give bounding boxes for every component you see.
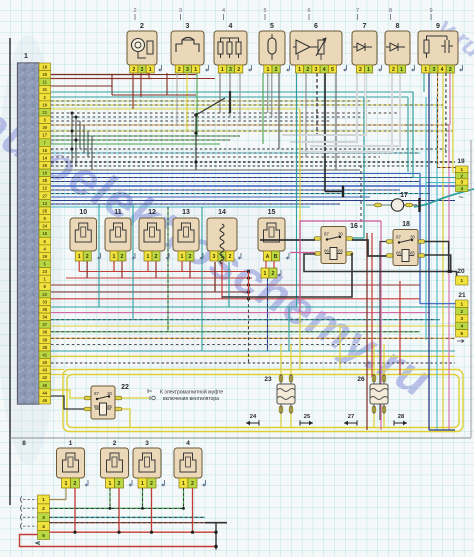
svg-text:1: 1	[460, 167, 463, 172]
svg-text:2: 2	[132, 67, 135, 73]
svg-text:2: 2	[392, 67, 395, 73]
svg-text:1: 1	[194, 67, 197, 73]
svg-text:25: 25	[42, 208, 47, 213]
svg-text:13: 13	[42, 201, 47, 206]
svg-text:9: 9	[436, 23, 440, 30]
svg-text:18: 18	[42, 64, 47, 69]
svg-text:3: 3	[460, 316, 463, 321]
svg-text:3: 3	[42, 515, 45, 520]
svg-text:19: 19	[457, 158, 465, 165]
svg-text:22: 22	[121, 384, 129, 391]
svg-text:1: 1	[147, 254, 150, 260]
svg-text:4: 4	[222, 8, 225, 14]
svg-text:37: 37	[42, 322, 47, 327]
svg-text:2: 2	[229, 254, 232, 260]
svg-text:28: 28	[398, 414, 405, 420]
svg-text:10: 10	[79, 209, 87, 216]
svg-text:46: 46	[42, 398, 47, 403]
svg-text:1: 1	[182, 481, 185, 487]
svg-text:85: 85	[107, 404, 112, 409]
svg-text:27: 27	[42, 193, 47, 198]
svg-text:1: 1	[400, 67, 403, 73]
svg-text:4: 4	[460, 324, 463, 329]
svg-text:1: 1	[221, 67, 224, 73]
svg-text:18: 18	[402, 221, 410, 228]
svg-text:33: 33	[42, 299, 47, 304]
svg-text:2: 2	[449, 67, 452, 73]
svg-text:9: 9	[429, 8, 432, 14]
svg-text:1: 1	[367, 67, 370, 73]
svg-text:87: 87	[324, 232, 329, 237]
svg-text:3: 3	[141, 67, 144, 73]
svg-text:1: 1	[42, 497, 45, 502]
svg-text:45: 45	[42, 383, 47, 388]
svg-text:21: 21	[458, 292, 466, 299]
svg-text:12: 12	[148, 209, 156, 216]
svg-text:44: 44	[42, 390, 47, 395]
svg-text:17: 17	[400, 192, 408, 199]
svg-text:38: 38	[42, 345, 47, 350]
svg-text:29: 29	[42, 254, 47, 259]
svg-text:8: 8	[396, 23, 400, 30]
svg-text:3: 3	[186, 67, 189, 73]
svg-text:30: 30	[42, 125, 47, 130]
svg-text:2: 2	[155, 254, 158, 260]
svg-text:11: 11	[42, 80, 47, 85]
svg-text:8: 8	[389, 8, 392, 14]
svg-text:15: 15	[42, 231, 47, 236]
svg-text:26: 26	[357, 376, 365, 383]
svg-text:включения вентилятора: включения вентилятора	[163, 396, 219, 402]
svg-text:8: 8	[22, 440, 26, 447]
svg-text:7: 7	[363, 23, 367, 30]
svg-text:35: 35	[42, 307, 47, 312]
svg-text:87: 87	[94, 391, 99, 396]
svg-text:22: 22	[42, 292, 47, 297]
svg-text:31: 31	[42, 87, 47, 92]
svg-text:26: 26	[42, 163, 47, 168]
svg-text:16: 16	[42, 148, 47, 153]
svg-text:7: 7	[356, 8, 359, 14]
svg-text:3: 3	[315, 67, 318, 73]
svg-text:3: 3	[460, 180, 463, 185]
svg-text:1: 1	[24, 53, 28, 60]
svg-text:1: 1	[181, 254, 184, 260]
svg-text:1: 1	[424, 67, 427, 73]
svg-text:1: 1	[69, 440, 73, 447]
svg-text:13: 13	[182, 209, 190, 216]
svg-text:2: 2	[113, 440, 117, 447]
svg-text:12: 12	[42, 186, 47, 191]
svg-text:2: 2	[191, 481, 194, 487]
svg-text:B: B	[274, 254, 278, 260]
svg-text:2: 2	[140, 23, 144, 30]
svg-text:43: 43	[42, 368, 47, 373]
svg-text:39: 39	[42, 337, 47, 342]
svg-text:15: 15	[268, 209, 276, 216]
svg-text:5: 5	[42, 533, 45, 538]
svg-text:1: 1	[113, 254, 116, 260]
svg-text:1: 1	[264, 271, 267, 277]
svg-text:1: 1	[141, 481, 144, 487]
svg-text:23: 23	[264, 376, 272, 383]
svg-text:1: 1	[109, 481, 112, 487]
svg-text:16: 16	[350, 223, 358, 230]
svg-text:2: 2	[306, 67, 309, 73]
svg-text:85: 85	[338, 249, 343, 254]
svg-text:2: 2	[133, 8, 136, 14]
svg-text:1: 1	[65, 481, 68, 487]
svg-text:14: 14	[218, 209, 226, 216]
svg-text:5: 5	[460, 331, 463, 336]
svg-text:2: 2	[74, 481, 77, 487]
svg-text:2: 2	[237, 67, 240, 73]
svg-text:85: 85	[410, 251, 415, 256]
svg-text:1: 1	[298, 67, 301, 73]
svg-text:34: 34	[42, 315, 47, 320]
svg-text:2: 2	[86, 254, 89, 260]
svg-text:5: 5	[270, 23, 274, 30]
svg-text:2: 2	[42, 506, 45, 511]
svg-text:40: 40	[42, 360, 47, 365]
svg-text:2: 2	[118, 481, 121, 487]
svg-text:24: 24	[42, 224, 47, 229]
svg-text:14: 14	[42, 155, 47, 160]
svg-text:2: 2	[460, 309, 463, 314]
svg-text:41: 41	[42, 352, 47, 357]
svg-text:1: 1	[460, 301, 463, 306]
svg-text:2: 2	[359, 67, 362, 73]
svg-text:4: 4	[186, 440, 190, 447]
svg-text:К электромагнитной муфте: К электромагнитной муфте	[160, 389, 223, 396]
svg-text:4: 4	[441, 67, 444, 73]
svg-text:2: 2	[189, 254, 192, 260]
svg-text:2: 2	[178, 67, 181, 73]
svg-text:2: 2	[121, 254, 124, 260]
svg-text:21: 21	[42, 110, 47, 115]
svg-text:6: 6	[307, 8, 310, 14]
svg-text:2: 2	[460, 173, 463, 178]
svg-text:23: 23	[42, 269, 47, 274]
svg-text:1: 1	[266, 67, 269, 73]
svg-text:6: 6	[314, 23, 318, 30]
svg-text:24: 24	[250, 414, 257, 420]
svg-text:3: 3	[213, 254, 216, 260]
svg-text:10: 10	[42, 171, 47, 176]
svg-text:5: 5	[263, 8, 266, 14]
svg-text:1: 1	[78, 254, 81, 260]
svg-text:5: 5	[331, 67, 334, 73]
svg-text:3: 3	[432, 67, 435, 73]
svg-text:19: 19	[42, 102, 47, 107]
svg-text:11: 11	[114, 209, 122, 216]
svg-text:2: 2	[150, 481, 153, 487]
svg-text:3: 3	[179, 8, 182, 14]
svg-text:17: 17	[42, 133, 47, 138]
svg-text:27: 27	[348, 414, 354, 420]
svg-text:3: 3	[229, 67, 232, 73]
svg-text:4: 4	[42, 524, 45, 529]
svg-text:A: A	[266, 254, 270, 260]
svg-text:20: 20	[42, 72, 47, 77]
svg-text:3: 3	[145, 440, 149, 447]
svg-text:20: 20	[457, 268, 465, 275]
svg-text:1: 1	[460, 278, 463, 283]
svg-text:30: 30	[107, 391, 112, 396]
svg-text:36: 36	[42, 330, 47, 335]
svg-text:~: ~	[458, 192, 463, 202]
svg-text:42: 42	[42, 375, 47, 380]
svg-text:2: 2	[275, 67, 278, 73]
svg-text:4: 4	[460, 186, 463, 191]
svg-text:86: 86	[324, 249, 329, 254]
svg-text:86: 86	[94, 404, 99, 409]
svg-text:30: 30	[410, 235, 415, 240]
svg-text:28: 28	[42, 178, 47, 183]
svg-text:30: 30	[338, 232, 343, 237]
svg-text:25: 25	[304, 414, 311, 420]
svg-text:4: 4	[323, 67, 326, 73]
svg-text:3: 3	[186, 23, 190, 30]
svg-text:2: 2	[272, 271, 275, 277]
svg-text:86: 86	[396, 251, 401, 256]
svg-text:87: 87	[396, 235, 401, 240]
svg-text:1: 1	[149, 67, 152, 73]
svg-text:4: 4	[229, 23, 233, 30]
